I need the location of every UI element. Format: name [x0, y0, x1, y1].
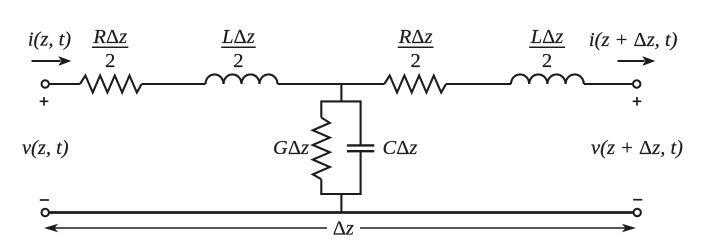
svg-text:2: 2: [410, 50, 420, 72]
svg-text:2: 2: [105, 50, 115, 72]
svg-text:LΔz: LΔz: [221, 26, 255, 48]
svg-text:Δz: Δz: [333, 218, 354, 240]
fraction bar (L dz/2 left): [221, 46, 256, 48]
fraction bar (R dz/2 left): [92, 46, 128, 48]
wire (bottom return conductor): [50, 211, 634, 214]
fraction bar (R dz/2 right): [398, 46, 434, 48]
svg-text:2: 2: [542, 50, 552, 72]
terminal (bottom-right port): [634, 209, 641, 216]
svg-text:v(z + Δz, t): v(z + Δz, t): [591, 137, 683, 159]
wire (shunt stem from top wire): [340, 84, 342, 101]
svg-text:i(z, t): i(z, t): [28, 29, 71, 51]
arrow (current direction i(z,t)): [32, 60, 61, 62]
plus sign (top-right polarity): [633, 97, 642, 106]
wire (top, left terminal to R1): [49, 83, 80, 85]
svg-text:CΔz: CΔz: [383, 137, 418, 159]
terminal (bottom-left port): [42, 209, 49, 216]
resistor (conductance) G-delta-z: [313, 118, 330, 180]
terminal (top-right port): [633, 80, 640, 87]
inductor L-delta-z/2 right: [511, 74, 584, 84]
capacitor C-delta-z plates: [347, 145, 374, 151]
wire (shunt box top bar with leads down to G and C): [321, 101, 360, 145]
resistor R-delta-z/2 right: [384, 76, 446, 93]
svg-text:GΔz: GΔz: [273, 137, 309, 159]
svg-text:2: 2: [233, 50, 243, 72]
minus sign (bottom-left polarity): [40, 199, 49, 201]
fraction bar (L dz/2 right): [529, 46, 565, 48]
minus sign (bottom-right polarity): [633, 199, 642, 201]
inductor L-delta-z/2 left: [206, 74, 278, 84]
dimension line delta-z (left segment with arrowhead): [47, 227, 327, 229]
wire (top, L1 to R2, includes shunt junction): [278, 83, 385, 85]
wire (shunt stem to bottom wire): [340, 194, 342, 213]
dimension line delta-z (right segment with arrowhead): [360, 227, 633, 229]
svg-text:RΔz: RΔz: [92, 26, 127, 48]
svg-text:RΔz: RΔz: [398, 26, 433, 48]
wire (top, R2 to L2): [446, 83, 511, 85]
wire (top, R1 to L1): [142, 83, 206, 85]
resistor R-delta-z/2 left: [80, 76, 142, 93]
svg-text:LΔz: LΔz: [530, 26, 564, 48]
svg-text:v(z, t): v(z, t): [22, 137, 69, 159]
wire (shunt box bottom bar with leads from G and C): [321, 151, 360, 194]
wire (top, L2 to right terminal): [584, 83, 633, 85]
terminal (top-left port): [42, 80, 49, 87]
plus sign (top-left polarity): [40, 97, 49, 106]
arrow (current direction i(z+dz,t)): [618, 60, 645, 62]
svg-text:i(z + Δz, t): i(z + Δz, t): [589, 29, 678, 51]
